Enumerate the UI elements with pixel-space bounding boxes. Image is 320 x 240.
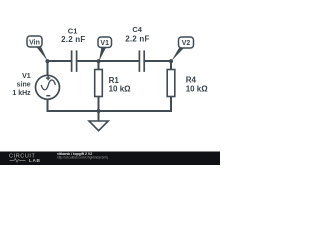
svg-text:V2: V2 [182,40,191,47]
svg-text:10 kΩ: 10 kΩ [109,85,132,94]
svg-text:2.2 nF: 2.2 nF [61,35,85,44]
svg-text:LAB: LAB [29,158,40,163]
svg-text:R4: R4 [186,76,197,85]
svg-text:http://circuitlab.com/c/hgkbnd: http://circuitlab.com/c/hgkbndansnfq [57,155,108,159]
svg-text:10 kΩ: 10 kΩ [186,85,209,94]
svg-text:V1: V1 [100,40,109,47]
svg-text:2.2 nF: 2.2 nF [125,35,149,44]
svg-text:C4: C4 [132,25,142,34]
svg-text:sine: sine [17,81,31,88]
svg-text:V1: V1 [22,73,31,80]
svg-text:1 kHz: 1 kHz [12,90,31,97]
svg-text:Vin: Vin [29,39,40,46]
